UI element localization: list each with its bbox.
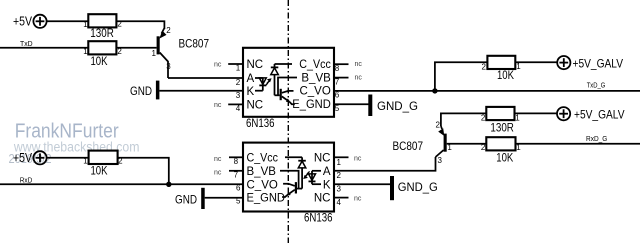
wire U2 pin3 to GND_G [334,183,390,185]
svg-text:2: 2 [236,78,241,87]
svg-text:1: 1 [83,20,88,29]
supply +5V_GALV (TxD side) [557,56,623,70]
optocoupler U2 6N136 (bottom) [243,143,334,225]
wire +5V to 10K (bottom left) [47,157,89,159]
svg-text:NC: NC [247,59,264,71]
svg-text:6N136: 6N136 [304,211,333,225]
ground GND (bottom left) [175,188,243,209]
resistor 10K (galv RxD) [481,137,521,164]
U2 internal phototransistor [282,182,297,197]
svg-text:2: 2 [436,120,441,129]
U2 LED light arrows [307,171,310,174]
wire RxD [0,183,243,185]
svg-text:1: 1 [337,158,342,167]
svg-text:10K: 10K [91,164,108,178]
svg-text:C_Vcc: C_Vcc [247,152,279,164]
resistor 130R (TxD side) [83,14,122,40]
svg-text:10K: 10K [91,54,108,68]
svg-text:2: 2 [337,171,342,180]
optocoupler U1 6N136 (top) [243,48,334,130]
svg-text:TxD: TxD [20,39,33,48]
svg-text:E_GND: E_GND [292,99,331,111]
svg-text:C_VO: C_VO [299,86,330,98]
svg-text:3: 3 [236,91,241,100]
svg-text:B_VB: B_VB [247,166,277,178]
svg-text:2: 2 [166,26,171,35]
wire 130R to Q1 emitter [116,21,164,29]
svg-text:nc: nc [355,74,363,81]
svg-text:NC: NC [314,193,331,205]
U1 pin 1 stub [228,63,243,65]
svg-text:nc: nc [354,196,362,203]
svg-text:C_VO: C_VO [247,179,278,191]
svg-text:GND: GND [130,84,152,98]
svg-text:5: 5 [335,104,340,113]
svg-text:K: K [323,179,331,191]
svg-text:7: 7 [234,171,239,180]
svg-text:BC807: BC807 [393,139,424,153]
svg-text:A: A [323,166,331,178]
svg-text:C_Vcc: C_Vcc [299,59,331,71]
U1 pin 7 stub [334,77,349,79]
svg-text:1: 1 [83,156,88,165]
svg-text:nc: nc [214,169,222,176]
ground GND_G (bottom) [390,176,438,200]
svg-text:nc: nc [355,61,363,68]
wire TxD [0,47,88,49]
svg-text:+5V: +5V [13,150,32,165]
supply +5V_GALV (RxD side) [557,107,625,121]
transistor Q2 BC807 [393,120,453,165]
svg-text:TxD_G: TxD_G [587,81,606,90]
wire 130R to +5V_GALV [515,112,558,114]
svg-text:E_GND: E_GND [247,193,286,205]
svg-text:GND_G: GND_G [398,180,438,194]
wire 10K to +5V_GALV [515,61,557,63]
ground GND_G (top) [368,95,418,117]
isolation barrier dash-dot line [287,0,289,243]
U2 pin 4 stub [334,197,349,199]
svg-text:4: 4 [236,104,241,113]
svg-text:2: 2 [481,114,486,123]
U2 internal photodiode [285,157,306,188]
svg-text:1: 1 [152,49,157,58]
svg-text:GND: GND [175,193,197,207]
svg-text:RxD_G: RxD_G [586,134,607,143]
wire 130R to Q2 emitter [441,113,486,126]
U2 pin 1 stub [334,156,349,158]
wire U1 pin5 to GND_G [334,103,369,105]
transistor Q1 BC807 [152,26,210,78]
svg-text:1: 1 [515,114,520,123]
wire Q1 collector to U1 pin2 [168,77,243,79]
svg-text:7: 7 [335,77,340,86]
svg-text:A: A [247,73,255,85]
supply +5V (bottom) [13,150,47,165]
svg-text:10K: 10K [496,151,513,165]
svg-text:nc: nc [214,102,222,109]
svg-text:BC807: BC807 [179,37,210,51]
svg-text:+5V_GALV: +5V_GALV [573,56,624,70]
svg-text:8: 8 [335,64,340,73]
U1 LED light arrows [265,83,268,86]
svg-text:10K: 10K [497,68,514,82]
U2 pin 8 stub [229,156,243,158]
svg-text:3: 3 [166,62,171,71]
svg-text:130R: 130R [490,120,514,134]
node RxD junction [166,182,171,187]
svg-text:2: 2 [481,143,486,152]
svg-text:RxD: RxD [20,176,33,185]
wire RxD_G [516,143,640,145]
svg-text:2: 2 [481,62,486,71]
svg-text:B_VB: B_VB [301,73,331,85]
U1 internal LED [255,78,266,91]
wire Q2 base to 10K [447,143,487,145]
U1 internal photodiode [271,64,292,95]
svg-text:nc: nc [354,155,362,162]
svg-text:K: K [247,86,255,98]
wire junction riser to 10K [435,62,488,91]
wire 10K down to RxD line [118,158,169,185]
svg-text:GND_G: GND_G [377,99,418,113]
node TxD_G junction [432,88,437,93]
U2 internal LED [309,171,322,184]
svg-text:6: 6 [236,183,241,192]
U2 pin 7 stub [229,170,243,172]
resistor 10K (galv TxD) [481,56,521,82]
ground GND (top left) [130,81,243,100]
svg-text:1: 1 [516,62,521,71]
svg-text:nc: nc [214,61,222,68]
svg-text:130R: 130R [90,26,114,40]
U1 pin 8 stub [334,63,349,65]
wire +5V to R 130R [47,20,89,22]
svg-text:NC: NC [247,99,264,111]
resistor 10K (RxD pull-up) [83,151,123,178]
wire U1 pin6 long TxD_G [334,90,640,92]
U1 internal phototransistor [280,89,295,104]
U1 pin 4 stub [228,103,243,105]
svg-text:4: 4 [337,198,342,207]
U2 internal base link [280,171,299,189]
svg-text:6: 6 [335,91,340,100]
svg-text:1: 1 [236,64,241,73]
svg-text:5: 5 [236,197,241,206]
resistor 130R (galv RxD) [481,107,520,134]
svg-text:nc: nc [214,156,222,163]
U1 internal base link [278,78,297,96]
wire U2 pin2 to Q2 collector [334,157,436,171]
supply +5V (top) [13,14,47,29]
svg-text:8: 8 [234,157,239,166]
svg-text:6N136: 6N136 [246,116,275,130]
svg-text:3: 3 [438,156,443,165]
resistor 10K (TxD base) [83,41,122,68]
svg-text:+5V_GALV: +5V_GALV [574,107,625,121]
svg-text:1: 1 [83,47,88,56]
svg-text:+5V: +5V [13,14,32,29]
svg-text:NC: NC [314,152,331,164]
svg-text:3: 3 [337,185,342,194]
wire 10K to Q1 base [116,47,156,49]
